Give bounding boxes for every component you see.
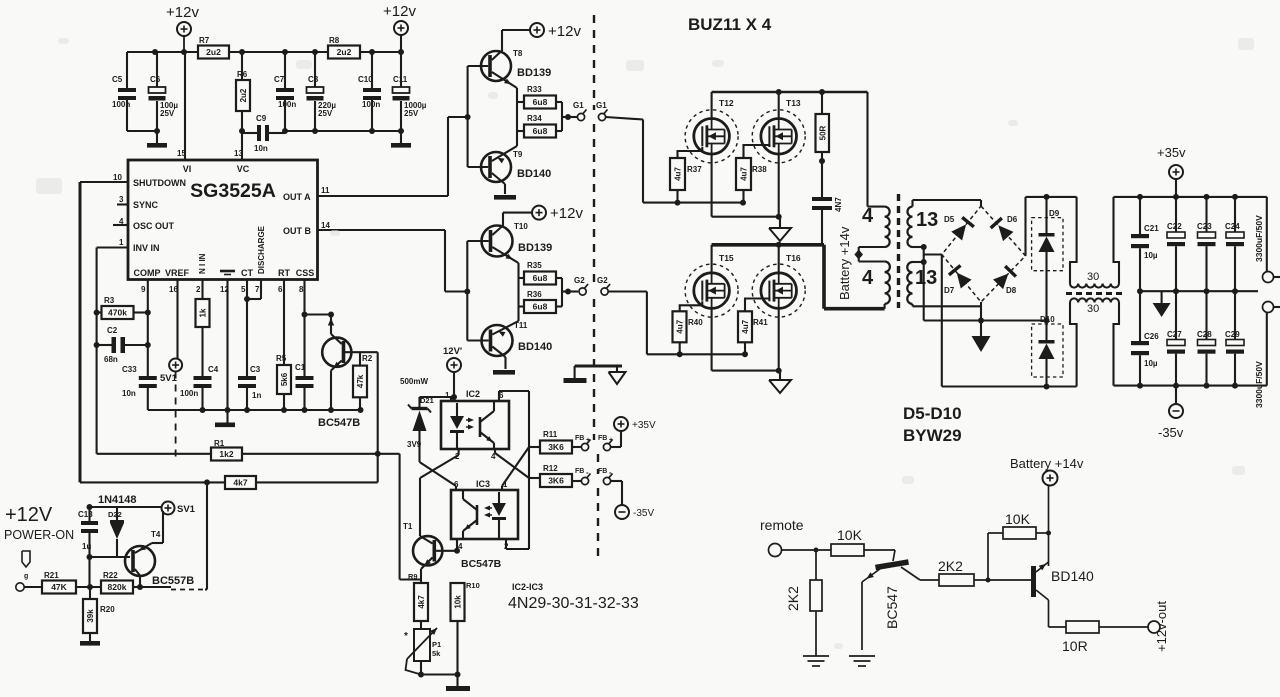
transistor T4 BC557B [125, 511, 194, 587]
resistor 10R [1049, 621, 1148, 654]
wire secondary bottom to bridge [913, 305, 982, 307]
svg-text:C28: C28 [1197, 330, 1212, 339]
svg-text:C1: C1 [295, 363, 306, 372]
svg-text:10: 10 [113, 173, 122, 182]
resistor R12 3K6 [529, 464, 581, 487]
diode D8 [993, 273, 1008, 289]
svg-text:*: * [404, 631, 408, 642]
capacitor C29 3300uF/50V [1225, 291, 1264, 408]
ground triangle below T12 T13 [769, 228, 791, 241]
svg-text:BD140: BD140 [518, 341, 552, 353]
svg-text:N I IN: N I IN [198, 253, 207, 274]
svg-text:3300uF/50V: 3300uF/50V [1254, 215, 1264, 262]
wire remote to 10K [782, 548, 832, 553]
transformer primary winding 4 (bottom) [862, 262, 890, 309]
svg-text:T4: T4 [151, 530, 161, 539]
svg-text:RT: RT [278, 268, 290, 278]
svg-text:D9: D9 [1049, 209, 1060, 218]
svg-text:+: + [586, 437, 590, 444]
svg-text:4u7: 4u7 [674, 167, 683, 181]
terminal remote input [769, 544, 782, 557]
svg-text:C21: C21 [1144, 224, 1159, 233]
diode D7 [957, 272, 972, 288]
resistor R40 4u7 gate [673, 301, 704, 354]
svg-text:C6: C6 [150, 75, 161, 84]
terminal +12v (driver B) [503, 205, 583, 226]
svg-text:T11: T11 [514, 321, 528, 330]
capacitor C4 100n [180, 365, 219, 410]
wire bridge bottom corner down [980, 302, 982, 321]
svg-text:R3: R3 [104, 296, 115, 305]
wire bridge left corner to minus rail [941, 255, 943, 387]
svg-text:+35V: +35V [632, 420, 656, 431]
wire G1 to gate resistors [606, 117, 746, 206]
svg-text:R22: R22 [103, 571, 118, 580]
svg-text:470k: 470k [108, 308, 127, 318]
transformer secondary winding 13 (top) [907, 207, 938, 247]
diode D10 with dashed box [1032, 315, 1063, 387]
inductor 30 (top) [1070, 197, 1119, 288]
wire secondary top to bridge [913, 200, 982, 207]
svg-text:1N4148: 1N4148 [98, 494, 137, 506]
transistor BC547 (remote) [862, 550, 920, 650]
wire SHUTDOWN pin10 to left column [80, 182, 128, 482]
ground bar under IC bus [215, 423, 235, 428]
transistor T2 BC547B (soft start) [305, 312, 378, 430]
svg-text:47K: 47K [51, 582, 67, 592]
svg-text:10n: 10n [122, 389, 136, 398]
wire pin12 column to ground bus [226, 280, 228, 411]
transistor T11 BD140 [467, 321, 552, 369]
ground link bracket [575, 366, 622, 378]
resistor R41 4u7 gate [738, 299, 769, 355]
terminal +35v [1157, 145, 1186, 197]
resistor R34 6u8 [517, 114, 562, 138]
svg-text:IC2: IC2 [466, 389, 480, 399]
svg-text:2u2: 2u2 [239, 88, 248, 102]
svg-text:D6: D6 [1007, 215, 1018, 224]
svg-text:R33: R33 [527, 85, 542, 94]
svg-text:4: 4 [862, 267, 874, 289]
wire T12 T13 source junction [712, 154, 782, 227]
svg-text:Battery +14v: Battery +14v [1010, 456, 1084, 471]
svg-text:13: 13 [916, 209, 938, 231]
svg-text:INV IN: INV IN [133, 243, 160, 253]
node center tap battery [854, 247, 884, 262]
svg-text:VC: VC [237, 164, 250, 174]
connector G2 left [574, 276, 588, 295]
wire T4 collector to 4k7 rail [204, 479, 210, 589]
svg-text:25V: 25V [404, 109, 419, 118]
svg-text:BC547B: BC547B [318, 417, 360, 429]
svg-text:FB: FB [598, 468, 607, 475]
svg-text:25V: 25V [160, 109, 175, 118]
svg-text:14: 14 [321, 221, 330, 230]
svg-text:T13: T13 [786, 98, 801, 108]
svg-text:R36: R36 [527, 290, 542, 299]
svg-text:5: 5 [241, 285, 246, 294]
svg-text:T1: T1 [403, 522, 413, 531]
wire -35 bottom rail [1114, 383, 1267, 389]
svg-text:BC547B: BC547B [461, 558, 502, 570]
svg-text:4N29-30-31-32-33: 4N29-30-31-32-33 [508, 595, 639, 612]
svg-text:30: 30 [1087, 271, 1099, 283]
wire to G2 connector [562, 289, 578, 295]
wire to G1 connector [562, 114, 577, 120]
svg-text:1k2: 1k2 [219, 449, 233, 459]
ground triangle below T15 T16 [769, 380, 791, 393]
resistor R22 820k [101, 571, 143, 594]
svg-text:100n: 100n [278, 100, 296, 109]
wire IC3 pin4 to T1 base [454, 539, 460, 554]
wire T10 T11 base column [464, 241, 470, 341]
resistor R11 3K6 [529, 430, 581, 454]
svg-text:D7: D7 [944, 286, 955, 295]
svg-text:OUT B: OUT B [283, 226, 311, 236]
svg-text:DISCHARGE: DISCHARGE [257, 225, 266, 274]
resistor R21 47K [24, 571, 101, 594]
svg-text:BUZ11 X 4: BUZ11 X 4 [688, 15, 772, 34]
svg-text:BD140: BD140 [517, 168, 551, 180]
svg-text:CT: CT [241, 268, 253, 278]
svg-text:OUT A: OUT A [283, 192, 311, 202]
wire secondary series junction [913, 244, 942, 321]
transformer secondary winding 13 (bottom) [907, 262, 937, 306]
svg-text:BC547: BC547 [884, 586, 900, 629]
wire ground bus under IC [148, 407, 364, 423]
transistor T12 BUZ11 MOSFET [685, 98, 738, 163]
connector G1 left [573, 101, 587, 121]
svg-text:VREF: VREF [165, 268, 190, 278]
svg-text:5k6: 5k6 [280, 372, 289, 386]
svg-text:G2: G2 [574, 276, 585, 285]
wire dashed T4 collector link [171, 589, 205, 591]
svg-text:+: + [609, 437, 613, 444]
wire INV IN pin1 to left column [97, 248, 128, 454]
svg-text:C13: C13 [78, 510, 93, 519]
capacitor C8 220u 25V [307, 52, 337, 131]
svg-text:1: 1 [445, 391, 450, 400]
wire OUT A pin11 to driver bases [318, 117, 468, 196]
wire VC pin13 [241, 131, 243, 160]
wire zero mid rail [1137, 288, 1258, 294]
svg-text:10K: 10K [1005, 511, 1031, 527]
resistor R3 470k [94, 296, 151, 319]
capacitor C5 100n [112, 52, 136, 131]
diode D21 zener 3V9 [407, 396, 454, 462]
svg-text:R38: R38 [752, 165, 767, 174]
svg-text:C26: C26 [1144, 332, 1159, 341]
wire IC3 pin2 to feed column [506, 539, 529, 549]
svg-text:4N7: 4N7 [834, 197, 843, 212]
svg-text:SHUTDOWN: SHUTDOWN [133, 178, 186, 188]
ground bar below T11 [493, 370, 515, 375]
svg-text:820k: 820k [108, 582, 127, 592]
svg-text:G1: G1 [596, 101, 607, 110]
capacitor C26 10u [1131, 291, 1159, 385]
svg-text:POWER-ON: POWER-ON [4, 528, 74, 542]
connector G2 right [597, 276, 610, 295]
svg-text:C22: C22 [1167, 222, 1182, 231]
svg-text:-35v: -35v [1158, 425, 1184, 440]
resistor R20 39k vertical [83, 587, 115, 641]
resistor R10 10k vertical [451, 581, 480, 675]
svg-text:CSS: CSS [296, 268, 315, 278]
wire dashed isolation barrier [594, 15, 598, 563]
svg-text:-35V: -35V [633, 508, 654, 519]
svg-text:10R: 10R [1062, 638, 1088, 654]
svg-text:BD140: BD140 [1051, 568, 1094, 584]
ground arrow center tap [972, 321, 991, 353]
terminal +35V feedback [614, 417, 656, 431]
svg-text:4u7: 4u7 [676, 319, 685, 333]
svg-text:D21: D21 [420, 396, 434, 405]
svg-text:3K6: 3K6 [548, 442, 564, 452]
svg-text:C9: C9 [256, 114, 267, 123]
terminal output minus [1263, 302, 1280, 386]
svg-text:R34: R34 [527, 114, 542, 123]
svg-text:BD139: BD139 [517, 67, 551, 79]
svg-text:7: 7 [255, 285, 260, 294]
capacitor C33 10n [122, 365, 157, 410]
svg-text:-: - [586, 468, 589, 477]
capacitor C13 1u [78, 507, 98, 587]
wire drain rail to primary top [868, 92, 885, 207]
capacitor 4N7 snubber [812, 197, 843, 245]
svg-text:R7: R7 [199, 36, 210, 45]
resistor R5 5k6 vertical [276, 280, 291, 411]
capacitor C23 [1197, 197, 1216, 291]
terminal 5V1 reference [160, 359, 182, 385]
svg-text:47k: 47k [356, 374, 365, 388]
svg-text:R2: R2 [362, 354, 373, 363]
terminal output plus [1263, 197, 1280, 283]
transistor T1 BC547B [403, 478, 502, 580]
terminal Battery +14v (remote) [1010, 456, 1084, 566]
terminal SV1 [162, 502, 196, 516]
svg-text:+12v: +12v [550, 205, 583, 222]
svg-text:FB: FB [598, 435, 607, 442]
svg-text:+12v: +12v [166, 4, 199, 21]
resistor 1k vertical on pin2 [196, 280, 210, 377]
svg-text:3V9: 3V9 [407, 440, 422, 449]
svg-text:OSC OUT: OSC OUT [133, 221, 175, 231]
svg-text:10µ: 10µ [1144, 251, 1158, 260]
resistor 10K (remote) [831, 527, 895, 556]
connector FB- pair [575, 468, 622, 505]
op-amp IC2 optocoupler [441, 389, 509, 461]
ground below R20 [80, 641, 100, 646]
wire IC2 pin6 feed [499, 391, 529, 549]
wire secondary centertap ground rail [924, 318, 1050, 324]
svg-text:4: 4 [862, 205, 874, 227]
svg-text:T8: T8 [513, 49, 523, 58]
terminal 12V' [443, 346, 462, 400]
svg-text:C23: C23 [1197, 222, 1212, 231]
transformer primary winding 4 (top) [862, 205, 890, 247]
resistor R37 4u7 gate [670, 147, 702, 203]
wire T8 T9 base column [465, 66, 471, 167]
svg-text:9: 9 [141, 285, 146, 294]
connector G1 right [596, 101, 608, 121]
capacitor C7 100n [274, 52, 296, 131]
svg-text:R35: R35 [527, 261, 542, 270]
svg-text:100n: 100n [180, 389, 198, 398]
svg-text:6u8: 6u8 [533, 126, 548, 136]
capacitor C10 100n [358, 52, 381, 131]
wire T10-T11 emitter column [517, 263, 519, 321]
capacitor C22 [1167, 197, 1185, 291]
svg-text:-: - [609, 468, 612, 477]
svg-text:R41: R41 [753, 318, 768, 327]
wire right column R1 4k7 junction [375, 352, 400, 579]
svg-text:2K2: 2K2 [938, 558, 963, 574]
capacitor C21 10u [1131, 197, 1159, 291]
svg-text:100n: 100n [362, 100, 380, 109]
svg-text:1k: 1k [199, 308, 208, 317]
svg-text:25V: 25V [318, 109, 333, 118]
svg-text:g: g [24, 573, 28, 580]
capacitor C3 1n [238, 365, 261, 410]
transistor T13 BUZ11 MOSFET [752, 98, 805, 163]
svg-text:C7: C7 [274, 75, 285, 84]
svg-text:2u2: 2u2 [337, 47, 352, 57]
resistor 4k7 (shutdown feed) [80, 476, 378, 489]
connector plug input [16, 551, 30, 591]
wire bridge right corner to +35 rail [1026, 194, 1077, 256]
capacitor C1 [295, 363, 314, 410]
resistor R35 6u8 [519, 261, 563, 292]
svg-text:G1: G1 [573, 101, 584, 110]
transistor T10 BD139 [467, 222, 552, 263]
wire P1 R10 bottom [418, 672, 461, 687]
inductor 30 (bottom) [1070, 298, 1119, 386]
label IC2-IC3 4N29-30-31-32-33 [508, 582, 639, 612]
diode D5 [951, 224, 966, 240]
diode D9 with dashed box [1032, 197, 1063, 321]
capacitor C11 1000u 25V [393, 52, 427, 143]
svg-text:3300uF/50V: 3300uF/50V [1254, 361, 1264, 408]
svg-text:68n: 68n [104, 355, 118, 364]
wire +12v top rail [127, 36, 402, 52]
resistor R36 6u8 [519, 290, 563, 313]
svg-text:COMP: COMP [134, 268, 161, 278]
svg-text:50R: 50R [818, 125, 827, 140]
wire power-on top rail [87, 504, 162, 510]
capacitor C27 [1167, 291, 1185, 385]
resistor R9 4k7 vertical [400, 572, 428, 628]
capacitor C2 68n [94, 326, 151, 364]
label D5-D10 BYW29 [903, 404, 962, 445]
svg-text:5k: 5k [432, 649, 441, 658]
svg-text:BYW29: BYW29 [903, 426, 962, 445]
wire crossover IC2 to IC3 [420, 447, 530, 490]
wire SYNC pin3 stub [117, 203, 128, 205]
capacitor C9 10n [242, 114, 285, 153]
svg-text:1u: 1u [82, 542, 91, 551]
ground bar left of bracket [564, 378, 587, 383]
terminal +12v-out [1148, 601, 1169, 652]
wire OSC OUT pin4 stub [113, 224, 128, 226]
ground triangle right of bracket [609, 372, 626, 384]
svg-text:R40: R40 [688, 318, 703, 327]
svg-text:10n: 10n [254, 144, 268, 153]
transformer core dashed [897, 194, 900, 308]
svg-text:SG3525A: SG3525A [190, 180, 276, 202]
svg-text:SYNC: SYNC [133, 200, 159, 210]
svg-text:6u8: 6u8 [533, 302, 548, 312]
label +12V POWER-ON [4, 504, 74, 542]
svg-text:FB: FB [575, 435, 584, 442]
resistor R7 2u2 [198, 36, 229, 59]
wire T15 T16 drain rail thick [712, 242, 885, 309]
inductor core dashed [1066, 292, 1124, 295]
wire COMP pin9 column [147, 280, 149, 377]
svg-text:remote: remote [760, 517, 804, 533]
wire G2 to lower gate resistors [608, 292, 748, 358]
svg-text:39k: 39k [86, 609, 95, 623]
terminal -35v [1158, 386, 1184, 440]
svg-text:+12V: +12V [5, 504, 53, 526]
svg-text:D8: D8 [1006, 286, 1017, 295]
svg-text:100n: 100n [112, 100, 130, 109]
svg-text:C4: C4 [208, 365, 219, 374]
svg-text:D5: D5 [944, 215, 955, 224]
svg-text:C8: C8 [308, 75, 319, 84]
svg-text:10k: 10k [454, 595, 463, 609]
wire pin5 CT column [244, 280, 250, 377]
transistor BD140 (remote) [1031, 562, 1094, 627]
svg-text:8: 8 [299, 285, 304, 294]
wire C5-C6 bottom [127, 128, 160, 134]
terminal +12v (second) [383, 3, 416, 52]
svg-text:D5-D10: D5-D10 [903, 404, 962, 423]
svg-text:T9: T9 [513, 150, 523, 159]
svg-text:13: 13 [915, 267, 937, 289]
svg-text:10K: 10K [837, 527, 863, 543]
svg-text:R8: R8 [329, 36, 340, 45]
transistor T8 BD139 [468, 49, 552, 88]
resistor R6 2u2 vertical [236, 52, 250, 131]
svg-text:C2: C2 [107, 326, 118, 335]
ground below C6 [147, 143, 167, 148]
svg-text:+12v: +12v [383, 3, 416, 20]
svg-text:11: 11 [321, 186, 330, 195]
capacitor C6 100u 25V [149, 52, 179, 143]
ground below BC547 [849, 655, 875, 657]
terminal -35V feedback [615, 505, 654, 519]
wire C13 D22 T4 base [90, 556, 131, 558]
svg-text:R37: R37 [687, 165, 702, 174]
svg-text:6: 6 [278, 285, 283, 294]
diode D22 1N4148 [98, 494, 137, 557]
connector FB+ pair [575, 431, 621, 451]
ground bar below T9 [494, 195, 516, 200]
svg-text:P1: P1 [432, 640, 441, 649]
svg-text:+35v: +35v [1157, 145, 1186, 160]
svg-text:Battery +14v: Battery +14v [837, 226, 852, 300]
svg-text:FB: FB [575, 468, 584, 475]
svg-text:3K6: 3K6 [548, 476, 564, 486]
svg-text:T10: T10 [514, 222, 528, 231]
svg-text:R10: R10 [466, 581, 480, 590]
wire pin7 DISCHARGE jog [247, 280, 261, 300]
capacitor C24 3300uF/50V [1225, 197, 1264, 291]
diode D6 [998, 225, 1013, 241]
svg-text:10µ: 10µ [1144, 359, 1158, 368]
resistor R33 6u8 [517, 85, 562, 117]
bridge dashed outline [942, 206, 1026, 302]
